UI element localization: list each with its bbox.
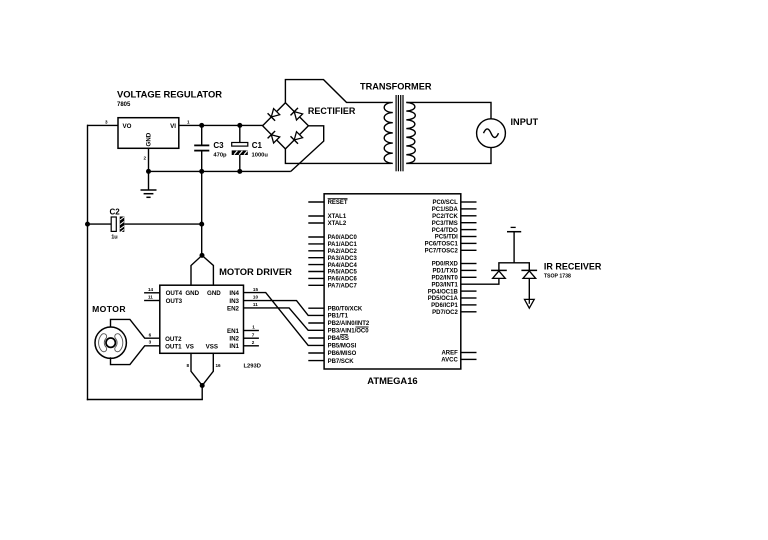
pin PC5/TDI stub [461,236,477,238]
svg-text:PA1/ADC1: PA1/ADC1 [328,242,358,248]
op-amp U2 ATMEGA16 box [324,194,461,369]
node C1 bottom junction [237,169,242,174]
ground symbol [148,171,150,190]
voltage regulator U1 7805 box [118,118,179,149]
svg-text:AVCC: AVCC [441,358,458,364]
svg-text:10: 10 [253,295,259,300]
diode D4 (bottom-right) [294,132,302,140]
IR output arrow [525,299,535,308]
capacitor C1 [232,143,248,147]
capacitor C2 [111,217,116,231]
node C2 left junction [85,222,90,227]
svg-text:TSOP 1738: TSOP 1738 [544,274,571,280]
diode D3 (bottom-left) [271,135,279,143]
svg-text:1u: 1u [111,234,118,240]
AC source V1 [477,119,506,148]
wire regulator VO pin [87,124,118,126]
svg-text:PB2/AIN0/INT2: PB2/AIN0/INT2 [328,321,370,327]
svg-text:PC1/SDA: PC1/SDA [432,207,459,213]
wire C3 bottom lead [201,151,203,172]
svg-text:PA4/ADC4: PA4/ADC4 [328,263,358,269]
pin OUT3 stub [144,300,160,302]
svg-text:6: 6 [149,333,152,338]
svg-text:PD3/INT1: PD3/INT1 [431,282,458,288]
pin PC3/TMS stub [461,222,477,224]
pin PD4/OC1B stub [461,290,477,292]
wire IN3 to PB1 [244,301,325,316]
wire C1 bottom lead [239,155,241,171]
pin PA0/ADC0 stub [308,236,324,238]
wire bottom return [87,399,203,401]
node pentagon apex [200,253,205,258]
pin OUT4 stub [144,292,160,294]
wire C1 top lead [239,125,241,142]
svg-text:IN2: IN2 [229,336,239,343]
svg-text:VOLTAGE REGULATOR: VOLTAGE REGULATOR [117,89,222,100]
wire secondary bottom [406,148,491,164]
wire regulator VI pin to bridge [179,124,263,126]
svg-text:OUT4: OUT4 [166,290,183,297]
svg-text:PC2/TCK: PC2/TCK [432,214,458,220]
svg-text:GND: GND [185,290,199,297]
wire C3 column to C2 junction [201,171,203,224]
diode D2 (top-right) [294,112,302,120]
pin PD1/TXD stub [461,269,477,271]
svg-text:MOTOR: MOTOR [92,304,126,314]
svg-text:15: 15 [253,287,259,292]
svg-text:INPUT: INPUT [511,117,539,127]
svg-text:EN1: EN1 [227,328,240,335]
svg-text:470p: 470p [213,153,227,159]
wire secondary top [406,102,491,118]
wire driver supply V [191,353,213,386]
pin PB4/SS stub [308,337,324,339]
svg-text:11: 11 [253,302,258,307]
svg-text:RESET: RESET [328,200,348,206]
svg-text:PA7/ADC7: PA7/ADC7 [328,284,358,290]
svg-text:16: 16 [216,363,222,368]
node C3 top junction [199,123,204,128]
svg-text:1000u: 1000u [252,153,269,159]
pin IN2 stub [244,337,259,339]
pin PB6/MISO stub [308,352,324,354]
diode IR right [521,269,537,271]
pin PD2/INT0 stub [461,276,477,278]
pin XTAL2 stub [308,222,324,224]
pin PC7/TOSC2 stub [461,249,477,251]
pin AREF stub [461,352,477,354]
svg-text:PB7/SCK: PB7/SCK [328,359,355,365]
wire motor top to OUT2 [111,319,160,338]
pin PC0/SCL stub [461,201,477,203]
diode D1 (top-left) [271,109,279,117]
svg-text:PA3/ADC3: PA3/ADC3 [328,256,358,262]
svg-text:ATMEGA16: ATMEGA16 [367,375,417,386]
wire ground rail [149,170,291,172]
node C1 top junction [237,123,242,128]
svg-text:PB3/AIN1/OC0: PB3/AIN1/OC0 [328,329,370,335]
svg-text:11: 11 [148,295,153,300]
motor driver U3 L293D box [160,285,244,353]
node C3 bottom junction [199,169,204,174]
pin PA7/ADC7 stub [308,284,324,286]
svg-text:GND: GND [207,290,221,297]
pin PC2/TCK stub [461,215,477,217]
svg-text:PC6/TOSC1: PC6/TOSC1 [425,242,459,248]
wire regulator GND pin [148,148,150,171]
pin PA6/ADC6 stub [308,277,324,279]
wire power to IR [513,232,515,263]
bridge rectifier frame [263,103,309,149]
node C2 right junction [199,222,204,227]
wire VO output left rail [87,125,89,401]
svg-text:IN4: IN4 [229,290,239,297]
svg-text:PD7/OC2: PD7/OC2 [432,310,458,316]
svg-text:2: 2 [143,156,146,161]
wire EN2 to PB3 [244,308,325,330]
svg-text:14: 14 [148,287,154,292]
wire bridge bottom corner to transformer [285,149,390,164]
svg-text:PD5/OC1A: PD5/OC1A [428,296,459,302]
svg-text:PD4/OC1B: PD4/OC1B [428,289,459,295]
node V-point junction [200,383,205,388]
wire C3 top lead [201,125,203,145]
svg-text:PA0/ADC0: PA0/ADC0 [328,235,358,241]
svg-text:PC3/TMS: PC3/TMS [432,221,458,227]
svg-text:3: 3 [149,340,152,345]
svg-text:XTAL1: XTAL1 [328,214,347,220]
svg-text:RECTIFIER: RECTIFIER [308,106,356,116]
svg-text:7: 7 [252,332,255,337]
svg-text:OUT3: OUT3 [166,298,183,305]
svg-text:3: 3 [105,120,108,125]
svg-text:PC0/SCL: PC0/SCL [432,200,458,206]
svg-text:C2: C2 [110,208,121,217]
pin PA5/ADC5 stub [308,271,324,273]
wire C2 junction to pentagon apex [201,224,203,255]
svg-text:PB0/T0/XCK: PB0/T0/XCK [328,306,363,312]
svg-text:PB5/MOSI: PB5/MOSI [328,344,357,350]
wire bottom to driver V-point [201,386,203,400]
svg-text:PD2/INT0: PD2/INT0 [431,276,458,282]
wire IN4 to PB5 [244,293,325,346]
svg-text:PC7/TOSC2: PC7/TOSC2 [425,249,459,255]
pin PB2/AIN0/INT2 stub [308,322,324,324]
pin PB0/T0/XCK stub [308,307,324,309]
svg-text:VSS: VSS [206,343,218,350]
svg-text:VS: VS [186,343,194,350]
pin PC6/TOSC1 stub [461,242,477,244]
svg-text:AREF: AREF [441,351,458,357]
transformer secondary coil [406,102,415,163]
svg-text:C3: C3 [213,141,224,150]
svg-text:PC4/TDO: PC4/TDO [432,228,458,234]
svg-text:7805: 7805 [117,102,131,108]
wire motor bottom to OUT1 [111,346,160,365]
svg-text:PA2/ADC2: PA2/ADC2 [328,249,358,255]
wire bridge right corner to ground rail [291,126,324,172]
svg-text:XTAL2: XTAL2 [328,221,347,227]
pin PD7/OC2 stub [461,311,477,313]
pin PD0/RXD stub [461,263,477,265]
svg-text:VI: VI [170,123,176,130]
transformer primary coil [384,102,393,163]
motor M1 [95,327,126,358]
svg-text:VO: VO [123,123,132,130]
svg-text:IN1: IN1 [229,343,239,350]
svg-text:PD6/ICP1: PD6/ICP1 [431,303,458,309]
svg-text:PA6/ADC6: PA6/ADC6 [328,277,358,283]
pin PD6/ICP1 stub [461,304,477,306]
pin PC4/TDO stub [461,229,477,231]
svg-text:GND: GND [146,132,153,146]
svg-text:1: 1 [187,120,190,125]
svg-text:8: 8 [186,363,189,368]
pin PA2/ADC2 stub [308,250,324,252]
pin PC1/SDA stub [461,208,477,210]
svg-text:OUT2: OUT2 [165,336,182,343]
svg-text:IR RECEIVER: IR RECEIVER [544,262,602,272]
node regulator GND junction [146,169,151,174]
svg-text:PA5/ADC5: PA5/ADC5 [328,270,358,276]
svg-text:PD1/TXD: PD1/TXD [432,269,458,275]
svg-text:C1: C1 [252,141,263,150]
wire IR right down [528,278,530,299]
wire IR left to PD3 [461,278,499,284]
wire C2 right lead [124,223,201,225]
svg-text:IN3: IN3 [229,298,239,305]
power symbol VCC [507,231,521,233]
svg-text:1: 1 [252,324,255,329]
pin PD5/OC1A stub [461,297,477,299]
svg-text:OUT1: OUT1 [165,343,182,350]
pin RESET stub [308,201,324,203]
pin PA1/ADC1 stub [308,243,324,245]
svg-text:PB4/SS: PB4/SS [328,336,349,342]
svg-text:PD0/RXD: PD0/RXD [432,262,459,268]
transformer core [395,95,397,171]
pin IN1 stub [244,345,259,347]
svg-text:PB6/MISO: PB6/MISO [328,351,357,357]
pin PA3/ADC3 stub [308,257,324,259]
svg-text:MOTOR DRIVER: MOTOR DRIVER [219,266,292,277]
svg-text:PB1/T1: PB1/T1 [328,314,349,320]
pin EN1 stub [244,330,259,332]
wire driver GND pentagon [191,255,213,285]
svg-text:PC5/TDI: PC5/TDI [435,235,458,241]
svg-text:TRANSFORMER: TRANSFORMER [360,82,432,92]
svg-text:2: 2 [252,340,255,345]
pin AVCC stub [461,358,477,360]
wire IR top rail [499,263,529,271]
diode IR left [491,269,507,271]
capacitor C3 [194,144,209,146]
wire bridge top corner up [285,80,390,103]
pin PB7/SCK stub [308,360,324,362]
pin PA4/ADC4 stub [308,264,324,266]
wire C2 left lead [88,223,112,225]
svg-text:EN2: EN2 [227,305,240,312]
pin XTAL1 stub [308,215,324,217]
svg-text:L293D: L293D [244,364,261,370]
